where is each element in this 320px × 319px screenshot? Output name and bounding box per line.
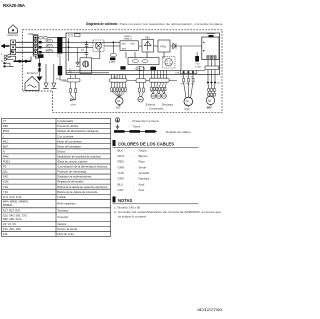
compressor connector X1A [181,71,197,74]
capacitor C7 stack [86,41,88,43]
labels Exterior Descarga Condensador [146,104,174,111]
svg-text:S1N: S1N [63,81,67,83]
svg-text:IPM1: IPM1 [3,129,10,133]
indoor unit house icon (Interior) [9,25,18,33]
svg-text:Z2C: Z2C [57,54,62,57]
svg-text:FU1, FU2, FU3: FU1, FU2, FU3 [3,195,22,199]
right connector box [205,66,219,70]
svg-text:L1R: L1R [76,61,81,64]
earth terminal dots [3,62,5,64]
svg-text:Protector de sobrecarga: Protector de sobrecarga [57,170,86,174]
compressor M1C [184,97,193,106]
svg-text:Protección a tierra: Protección a tierra [133,119,159,123]
wires between boxes [104,46,202,70]
svg-text:MRM20: MRM20 [124,38,132,40]
compressor wires [184,74,194,98]
wires X1M down [14,56,40,61]
svg-text:N: N [1,60,3,63]
svg-text:X1M: X1M [3,180,9,184]
svg-text:Interior: Interior [8,33,19,37]
svg-text:Azul: Azul [139,182,145,186]
svg-text:Y1S: Y1S [3,190,8,194]
svg-text:DB1: DB1 [3,124,9,128]
svg-text:3.15A: 3.15A [195,66,201,69]
svg-text:S20, S40, S50, S70,: S20, S40, S50, S70, [3,213,28,217]
svg-text:PS: PS [3,165,7,169]
svg-text:Y1E: Y1E [3,185,8,189]
svg-text:R1T, R2T, R3T: R1T, R2T, R3T [3,208,21,212]
bold arrow to indoor wiring [1,44,10,49]
legend earth [116,124,120,128]
connector strip box X70A [128,58,159,65]
svg-text:Con corriente: Con corriente [57,134,74,138]
svg-text:Tendido de cables: Tendido de cables [166,130,192,134]
svg-text:Fusible: Fusible [57,195,66,199]
legend field wiring bar [114,130,156,133]
svg-text:Condensador: Condensador [57,119,73,123]
top tab [209,35,214,37]
legend table [2,119,111,237]
svg-text:MRM20: MRM20 [3,203,13,207]
bold supply wires into box [14,60,32,62]
svg-text:M: M [208,99,211,103]
svg-text:Z1C, Z2C, Z4C: Z1C, Z2C, Z4C [3,227,21,231]
wires from sub box down [208,60,215,67]
svg-text:Diagrama de cableado: Diagrama de cableado [86,22,118,26]
svg-text:GRN: GRN [118,165,125,169]
ferrite core Z2C [57,37,62,54]
outdoor unit dashed boundary [22,30,222,113]
reactor L1R [80,58,92,74]
svg-text:S1PH: S1PH [71,104,77,106]
converter sub-box on PCB [202,37,219,60]
diode bridge circle in dashed box [93,40,104,52]
thermistors R2T R3T R4T [151,91,166,99]
svg-text:X1A: X1A [175,71,180,74]
ground stub on PCB [77,47,79,62]
svg-text:W: W [191,76,193,78]
thermistor R1T circle [138,97,143,102]
svg-text:Conector: Conector [57,215,68,219]
svg-text:C7: C7 [3,119,7,123]
power supply terminals L N with switch (Q1DI) [11,51,13,53]
svg-text:NOTAS: NOTAS [118,198,133,203]
wires along y70.3 [66,70,205,73]
pressure switch S1PH connector [67,79,80,83]
svg-text:PM1: PM1 [161,44,167,48]
thermistor connector comb [149,75,169,83]
svg-text:S80, S90, X11A: S80, S90, X11A [3,217,22,221]
crimp boxes compressor [183,78,194,82]
bold down arrow to casing [39,58,41,76]
diode D1 [173,43,176,49]
wire color labels BLU BLK WHT [47,41,53,53]
svg-text:Neutro: Neutro [57,149,66,153]
legend protective earth [115,118,119,122]
internal wires horizontal [66,38,120,61]
svg-text:M1C: M1C [185,108,190,111]
node dots at PCB input [68,41,70,48]
svg-text:Z4C: Z4C [217,83,221,85]
small connector ovals pair [39,36,48,39]
svg-text:Amarillo: Amarillo [139,171,150,175]
svg-text:Bobina de la válvula de expans: Bobina de la válvula de expansión electr… [57,185,107,189]
svg-text:RED: RED [118,160,125,164]
svg-text:V2, V3, V5: V2, V3, V5 [3,222,16,226]
svg-text:Filtro de ruido: Filtro de ruido [57,232,74,236]
svg-text:Módulo de alimentación intelig: Módulo de alimentación inteligente [57,129,99,133]
svg-text:M1F: M1F [207,105,213,109]
ferrite mid [120,66,125,69]
svg-text:SA2: SA2 [3,175,9,179]
svg-text:M1F: M1F [116,108,121,110]
svg-text:Verde: Verde [139,165,147,169]
svg-text:RXA20-35A: RXA20-35A [3,3,25,8]
wires from field terminals to X1M [16,42,34,52]
fan motor M1F right [206,96,214,104]
connector X11A (2 pin) [136,75,146,89]
wire color list [118,148,150,192]
svg-text:YLW: YLW [118,171,124,175]
capacitor FU2 3.15A right [195,56,199,62]
svg-text:Descarga: Descarga [162,104,174,107]
svg-text:ORG: ORG [118,177,126,181]
svg-text:Para conocer los requisitos de: Para conocer los requisitos de alimentac… [120,22,223,26]
svg-text:Z1F: Z1F [3,232,8,236]
svg-text:PCB1: PCB1 [3,160,11,164]
svg-text:COLORES DE LOS CABLES: COLORES DE LOS CABLES [118,141,174,146]
crimp boxes right motor [208,89,216,97]
IPM box PM1 [158,40,170,52]
surge circle SA2 in dashed box [163,57,176,69]
svg-text:X1M: X1M [28,32,33,36]
svg-text:Varistor: Varistor [57,222,66,226]
svg-text:FU1: FU1 [68,34,73,38]
fan motor M1F circle [116,97,123,104]
svg-text:Puente de diodos: Puente de diodos [57,124,79,128]
svg-text:Disipador de sobretensiones: Disipador de sobretensiones [57,175,92,179]
svg-text:GRY: GRY [118,188,124,192]
svg-text:Motor del ventilador: Motor del ventilador [57,144,81,148]
svg-text:Q1L: Q1L [3,170,9,174]
svg-text:WHT: WHT [186,84,190,86]
section header NOTAS [113,196,116,202]
svg-text:Naranja: Naranja [139,177,150,181]
svg-text:2. Consulte las especificacion: 2. Consulte las especificaciones de comp… [114,210,221,214]
notes text [114,206,221,219]
ground arrows (proteccion a tierra) [45,64,47,83]
svg-text:3.15A: 3.15A [109,61,115,64]
svg-text:Modulación de amplitud de impu: Modulación de amplitud de impulsos [57,154,101,158]
svg-text:MR4, MR30, MRM70,: MR4, MR30, MRM70, [3,200,29,204]
svg-text:Gris: Gris [139,188,145,192]
svg-text:Motor del compresor: Motor del compresor [57,139,82,143]
svg-text:M1C: M1C [3,139,9,143]
fan connector comb X26 [109,75,127,83]
svg-text:1. Tamaño: 140 x 80: 1. Tamaño: 140 x 80 [114,206,141,210]
S1PH switch symbol [70,93,75,101]
PCB A1P outline [66,33,220,75]
svg-text:PAM: PAM [3,154,9,158]
svg-text:Z3C: Z3C [56,78,60,80]
svg-text:4D122750: 4D122750 [197,308,222,312]
svg-text:Rojo: Rojo [139,160,146,164]
svg-text:Termistor: Termistor [57,208,68,212]
crimp boxes fan [111,88,127,92]
svg-text:N: N [3,149,5,153]
svg-text:M1F: M1F [3,144,9,148]
crimp boxes mid [139,88,145,92]
svg-text:Condensador: Condensador [149,108,164,111]
terminals inside bottom [207,56,216,59]
connector oval S40 + ferrite Z1C + fuse 3.15A cluster [112,41,114,43]
svg-text:BLU: BLU [118,182,124,186]
wires X1M to PCB [38,38,66,53]
svg-text:Bobina de la válvula de soleno: Bobina de la válvula de solenoide [57,190,98,194]
svg-text:Negro: Negro [139,148,148,152]
svg-text:X26: X26 [113,77,116,79]
svg-text:Relé magnético: Relé magnético [57,202,76,206]
oval S20 [136,67,145,71]
svg-text:Conmutación de la alimentación: Conmutación de la alimentación eléctrica [57,165,108,169]
ferrite Z4C [150,67,156,70]
svg-text:Núcleo de ferrita: Núcleo de ferrita [57,227,77,231]
svg-text:WHT: WHT [118,154,125,158]
section header COLORES DE LOS CABLES [113,140,116,146]
wire along y80.4 [127,79,177,81]
svg-text:Exterior: Exterior [146,104,156,107]
svg-text:Exterior: Exterior [27,71,38,75]
ferrite Z3C on wire [60,57,66,80]
black diamonds connectors [207,81,217,84]
svg-text:Placa de circuito impreso: Placa de circuito impreso [57,160,88,164]
block under X1M [38,54,44,58]
vertical wires to connectors [140,66,167,75]
svg-text:se indique lo contrario.: se indique lo contrario. [118,214,147,218]
svg-text:Blanco: Blanco [139,154,149,158]
svg-text:Tierra: Tierra [133,125,141,129]
svg-text:Regleta de terminales: Regleta de terminales [57,180,84,184]
field wiring connector column [11,40,16,55]
svg-text:BLK: BLK [118,148,124,152]
